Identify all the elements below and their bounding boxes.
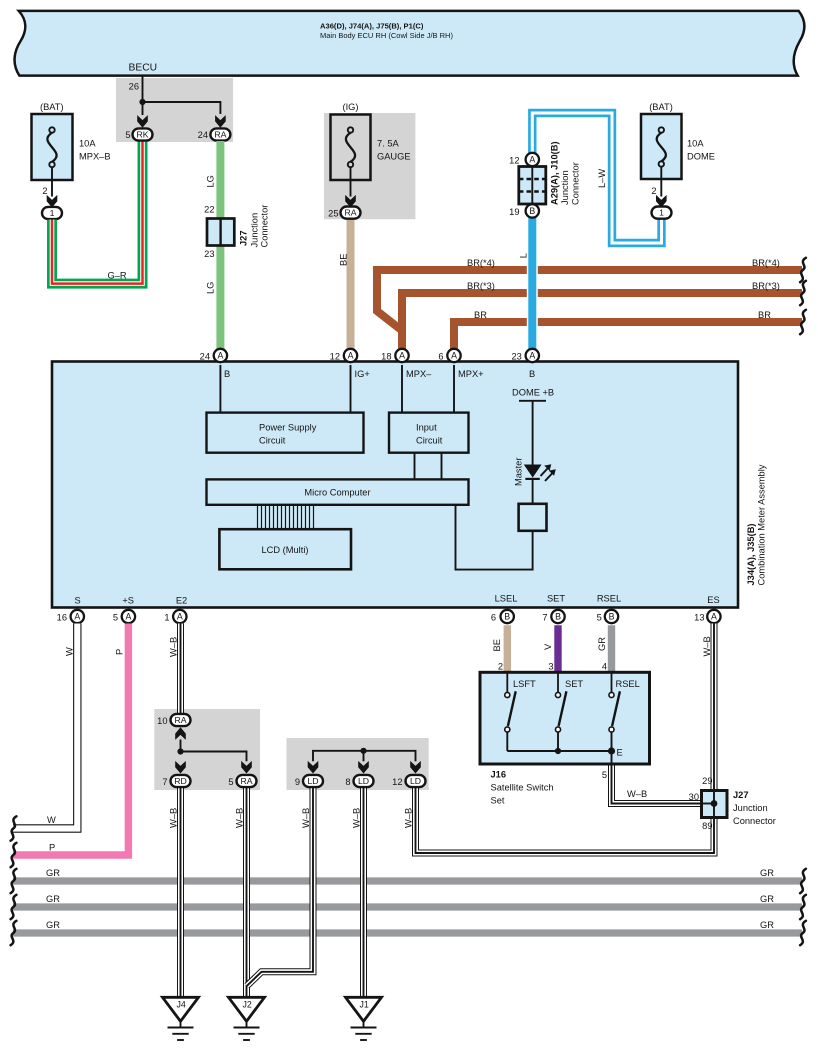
wire BR(*4) — [377, 270, 802, 331]
micro computer box — [207, 479, 469, 504]
svg-text:MPX+: MPX+ — [458, 369, 484, 379]
wire BR(*3) — [402, 293, 802, 352]
svg-text:2: 2 — [651, 186, 656, 196]
svg-text:LD: LD — [307, 776, 318, 786]
svg-text:5: 5 — [125, 130, 130, 140]
wire resistor to micro computer — [456, 505, 533, 570]
svg-text:IG+: IG+ — [355, 369, 370, 379]
svg-text:W–B: W–B — [301, 808, 311, 828]
junction node on BECU wire — [139, 99, 145, 105]
LED D1 Master indicator — [524, 465, 542, 478]
svg-text:5: 5 — [113, 613, 118, 623]
svg-text:9: 9 — [295, 777, 300, 787]
svg-text:10A: 10A — [79, 138, 96, 148]
svg-text:BR: BR — [474, 310, 487, 320]
internal wire pin24 to power supply — [219, 365, 221, 413]
svg-text:GR: GR — [46, 894, 60, 904]
wire W-B J16 E to J27 pin 30 — [612, 765, 702, 804]
svg-text:GR: GR — [46, 868, 60, 878]
svg-text:GR: GR — [760, 894, 774, 904]
svg-text:Set: Set — [491, 796, 505, 806]
svg-text:2: 2 — [42, 186, 47, 196]
svg-text:P: P — [49, 843, 55, 853]
svg-text:(BAT): (BAT) — [649, 102, 673, 112]
internal wire pin6 to input circuit — [453, 365, 455, 413]
svg-text:GR: GR — [760, 920, 774, 930]
svg-text:A: A — [74, 612, 80, 622]
continuation squiggles left — [11, 816, 17, 840]
svg-text:Connector: Connector — [260, 205, 270, 248]
svg-text:A: A — [529, 351, 535, 361]
power supply circuit box — [207, 413, 364, 453]
wires input circuit to micro computer — [414, 453, 416, 480]
svg-text:GAUGE: GAUGE — [377, 151, 411, 161]
svg-text:LSEL: LSEL — [495, 594, 518, 604]
svg-text:RA: RA — [214, 130, 226, 140]
svg-text:RSEL: RSEL — [616, 679, 640, 689]
svg-text:BR(*3): BR(*3) — [467, 281, 495, 291]
power rail band: Main Body ECU RH — [15, 11, 805, 76]
svg-text:A: A — [125, 612, 131, 622]
svg-text:Connector: Connector — [733, 816, 776, 826]
svg-text:S: S — [74, 596, 80, 606]
svg-text:16: 16 — [57, 613, 67, 623]
wire G-R (green-red) — [52, 141, 143, 284]
svg-text:18: 18 — [381, 352, 391, 362]
svg-text:RA: RA — [174, 715, 186, 725]
svg-text:1: 1 — [164, 613, 169, 623]
wire fuse pin 2 — [51, 167, 53, 197]
svg-text:A: A — [711, 612, 717, 622]
internal wire pin12 to power supply — [350, 365, 352, 413]
switch common bus — [507, 750, 611, 752]
LED light arrows — [541, 469, 548, 477]
svg-text:23: 23 — [204, 249, 214, 259]
svg-text:RD: RD — [174, 776, 187, 786]
svg-text:W–B: W–B — [627, 789, 647, 799]
svg-text:7: 7 — [162, 777, 167, 787]
svg-text:BE: BE — [339, 254, 349, 266]
combination meter assembly J34/J35 box — [52, 362, 738, 608]
wire LD branch — [313, 751, 416, 762]
svg-text:DOME +B: DOME +B — [512, 388, 554, 398]
wire L-W (light blue double) — [532, 113, 661, 243]
input circuit box — [389, 413, 469, 453]
svg-text:B: B — [504, 612, 510, 622]
svg-text:A: A — [348, 351, 354, 361]
svg-text:7: 7 — [542, 613, 547, 623]
svg-text:G–R: G–R — [107, 270, 126, 280]
svg-text:MPX–: MPX– — [406, 369, 432, 379]
svg-text:7. 5A: 7. 5A — [377, 138, 400, 148]
svg-text:BE: BE — [492, 639, 502, 651]
svg-text:1: 1 — [50, 208, 55, 218]
wire BE from pin 6B to J16 — [504, 625, 511, 672]
svg-text:W–B: W–B — [702, 636, 712, 656]
svg-text:BR(*4): BR(*4) — [752, 258, 780, 268]
svg-text:Power Supply: Power Supply — [259, 423, 317, 433]
wire BECU pin 26 — [142, 76, 144, 102]
svg-text:B: B — [224, 369, 230, 379]
svg-text:LG: LG — [206, 282, 216, 294]
svg-text:13: 13 — [694, 613, 704, 623]
svg-text:A: A — [451, 351, 457, 361]
wire GR bus — [13, 903, 802, 910]
svg-text:12: 12 — [509, 155, 519, 165]
internal wire pin18 to input circuit — [401, 365, 403, 413]
resistor box (square) — [519, 504, 547, 531]
svg-text:E: E — [617, 748, 623, 758]
ribbon bus micro computer to LCD — [257, 505, 259, 529]
connector arrow into RK — [142, 102, 144, 115]
arrow into RD — [175, 761, 186, 774]
wire L (light blue thick) — [527, 218, 538, 352]
svg-text:W–B: W–B — [234, 808, 244, 828]
svg-text:DOME: DOME — [687, 151, 715, 161]
svg-text:A: A — [177, 612, 183, 622]
svg-text:V: V — [543, 643, 553, 650]
junction connector J27 (top) — [207, 219, 234, 246]
svg-text:SET: SET — [547, 594, 565, 604]
svg-text:3: 3 — [548, 662, 553, 672]
ground J2 — [229, 997, 265, 1021]
wire LG — [216, 141, 224, 352]
svg-text:B: B — [555, 612, 561, 622]
relay block RA/RD (gray) — [154, 709, 260, 790]
svg-text:12: 12 — [330, 352, 340, 362]
connector 25 RA — [341, 207, 361, 219]
svg-text:W–B: W–B — [351, 808, 361, 828]
svg-text:J27: J27 — [733, 790, 749, 800]
svg-text:5: 5 — [602, 770, 607, 780]
wire BE (gauge to IG+) — [347, 219, 355, 352]
svg-text:Main Body ECU RH (Cowl Side J/: Main Body ECU RH (Cowl Side J/B RH) — [320, 31, 453, 40]
svg-text:10A: 10A — [687, 138, 704, 148]
svg-text:LCD (Multi): LCD (Multi) — [261, 545, 308, 555]
svg-text:10: 10 — [157, 716, 167, 726]
svg-text:BR(*3): BR(*3) — [752, 281, 780, 291]
svg-text:89: 89 — [702, 821, 712, 831]
wire W-B RA to ground J2 — [243, 788, 250, 997]
svg-text:LD: LD — [410, 776, 421, 786]
svg-text:1: 1 — [659, 208, 664, 218]
svg-text:LG: LG — [206, 175, 216, 187]
svg-text:J2: J2 — [242, 1000, 251, 1010]
wire W-B pin13 ES to J27 pin 29 — [711, 624, 718, 791]
svg-text:Master: Master — [514, 458, 524, 486]
arrow into 9 LD — [308, 761, 319, 774]
svg-text:8: 8 — [345, 777, 350, 787]
relay block LD (gray) — [287, 738, 429, 790]
wire W-B RD to ground J4 — [177, 788, 184, 997]
oval RK redrawn over wire — [133, 128, 153, 140]
svg-text:J34(A), J35(B): J34(A), J35(B) — [746, 523, 756, 585]
svg-text:Junction: Junction — [560, 170, 570, 205]
svg-text:J16: J16 — [491, 770, 507, 780]
continuation squiggles BR — [800, 258, 806, 282]
wire P (pink) from pin 5 — [13, 624, 128, 856]
svg-text:E2: E2 — [176, 596, 187, 606]
svg-text:+S: +S — [122, 596, 134, 606]
wire W from pin 16 — [13, 624, 77, 829]
svg-text:12: 12 — [392, 777, 402, 787]
wire W-B 12 LD to J27 pin 89 — [416, 788, 715, 853]
svg-text:L: L — [519, 253, 529, 258]
svg-text:29: 29 — [702, 776, 712, 786]
svg-text:RK: RK — [136, 130, 148, 140]
svg-text:W–B: W–B — [403, 808, 413, 828]
svg-text:A: A — [399, 351, 405, 361]
wire dome fuse pin 2 — [660, 167, 662, 197]
svg-text:24: 24 — [198, 130, 208, 140]
svg-text:W: W — [65, 647, 75, 656]
svg-text:25: 25 — [328, 209, 338, 219]
arrow into 8 LD — [358, 761, 369, 774]
svg-text:2: 2 — [498, 662, 503, 672]
svg-text:Combination Meter Assembly: Combination Meter Assembly — [757, 464, 767, 585]
svg-text:6: 6 — [438, 352, 443, 362]
svg-text:GR: GR — [597, 637, 607, 651]
wire to pin 24 branch — [143, 102, 221, 114]
svg-text:4: 4 — [602, 662, 607, 672]
junction connector J27 (bottom) — [702, 791, 728, 818]
gauge fuse block (gray) — [324, 113, 415, 219]
svg-text:Connector: Connector — [571, 162, 581, 205]
connector arrow into RA — [215, 115, 226, 128]
svg-text:30: 30 — [689, 792, 699, 802]
svg-text:23: 23 — [511, 352, 521, 362]
svg-text:RA: RA — [344, 208, 356, 218]
svg-text:B: B — [529, 369, 535, 379]
svg-text:GR: GR — [46, 920, 60, 930]
wire W-B 8 LD to ground J1 — [360, 788, 367, 997]
wire GR bus — [13, 929, 802, 936]
svg-text:J1: J1 — [359, 1000, 368, 1010]
wire gauge fuse to 25 RA — [350, 167, 352, 197]
connector 1 (DOME) — [652, 207, 672, 219]
svg-text:Input: Input — [416, 423, 437, 433]
wire V from pin 7B to J16 — [554, 625, 561, 672]
continuation squiggles right GR — [800, 869, 806, 893]
svg-text:(BAT): (BAT) — [40, 102, 64, 112]
svg-text:W–B: W–B — [168, 808, 178, 828]
wire LED to resistor box — [532, 479, 534, 504]
svg-text:A: A — [529, 155, 535, 165]
svg-text:A29(A), J10(B): A29(A), J10(B) — [550, 141, 560, 205]
wire W-B 9 LD jog to ground J2 — [247, 788, 313, 986]
wire E to box edge — [611, 751, 613, 765]
svg-text:22: 22 — [204, 205, 214, 215]
svg-text:W–B: W–B — [169, 637, 179, 657]
LCD (Multi) box — [219, 529, 351, 569]
ground J1 — [346, 997, 382, 1021]
arrow into RA(5) — [241, 761, 252, 774]
svg-text:24: 24 — [200, 352, 210, 362]
wire GR bus — [13, 877, 802, 884]
wire BR — [454, 322, 802, 352]
svg-text:(IG): (IG) — [342, 102, 358, 112]
svg-text:Junction: Junction — [250, 213, 260, 248]
svg-text:LSFT: LSFT — [513, 679, 536, 689]
svg-text:Junction: Junction — [733, 803, 768, 813]
svg-text:Circuit: Circuit — [416, 436, 443, 446]
svg-text:BECU: BECU — [129, 63, 158, 74]
svg-text:GR: GR — [760, 868, 774, 878]
ground J4 — [163, 997, 199, 1021]
wire GR from pin 5B to J16 — [608, 625, 615, 672]
arrow up into RA — [175, 727, 186, 740]
arrow into 12 LD — [410, 761, 421, 774]
J16 satellite switch set box — [480, 672, 650, 764]
svg-text:B: B — [609, 612, 615, 622]
svg-text:BR(*4): BR(*4) — [467, 258, 495, 268]
svg-text:J4: J4 — [176, 1000, 185, 1010]
svg-text:W: W — [47, 815, 56, 825]
svg-text:A: A — [217, 351, 223, 361]
svg-text:P: P — [115, 649, 125, 655]
svg-text:26: 26 — [129, 82, 139, 92]
svg-text:BR: BR — [758, 310, 771, 320]
svg-text:Circuit: Circuit — [259, 436, 286, 446]
svg-text:19: 19 — [509, 207, 519, 217]
svg-text:Satellite Switch: Satellite Switch — [491, 783, 554, 793]
svg-text:LD: LD — [358, 776, 369, 786]
svg-text:J27: J27 — [239, 230, 249, 246]
connector 1 (MPX-B) — [42, 207, 62, 219]
svg-text:MPX–B: MPX–B — [79, 151, 111, 161]
svg-text:Micro Computer: Micro Computer — [304, 488, 370, 498]
svg-text:B: B — [529, 206, 535, 216]
wire W-B pin1 E2 to relay RA — [177, 624, 184, 714]
svg-text:ES: ES — [707, 595, 719, 605]
wire relay branch — [180, 740, 182, 752]
svg-text:SET: SET — [565, 679, 583, 689]
svg-text:A36(D), J74(A), J75(B), P1(C): A36(D), J74(A), J75(B), P1(C) — [320, 21, 424, 30]
svg-text:RA: RA — [240, 776, 252, 786]
BECU connector block (gray) — [116, 78, 233, 142]
svg-text:RSEL: RSEL — [597, 594, 621, 604]
svg-text:6: 6 — [491, 613, 496, 623]
svg-text:5: 5 — [228, 777, 233, 787]
svg-text:L–W: L–W — [597, 169, 607, 188]
svg-text:5: 5 — [597, 613, 602, 623]
